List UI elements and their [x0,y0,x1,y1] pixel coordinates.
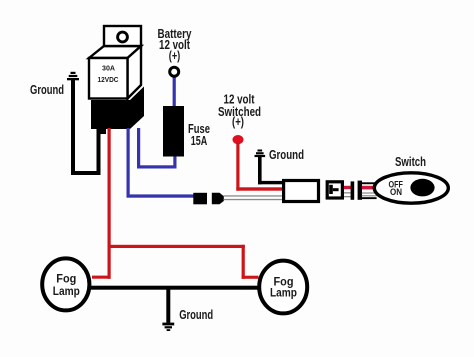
ground symbol (bottom) [162,323,174,331]
svg-text:Ground: Ground [179,308,213,322]
cable: thin wires to harness box [224,195,283,200]
wire: ground to harness (black) [258,157,283,185]
svg-text:(+): (+) [169,49,181,63]
svg-text:(+): (+) [232,115,244,129]
relay K1 base (socket) [91,87,144,130]
wire: battery to fuse (blue) [173,77,176,108]
svg-text:Ground: Ground [269,148,304,162]
svg-text:30A: 30A [102,64,116,73]
wire: relay to fuse (blue) [137,128,177,169]
connector A (spade housing) [327,182,342,198]
connector (blue) plug, inline pair [193,193,224,205]
label 12 volt Switched (+) [218,92,261,129]
switched 12V terminal (red dot) [233,135,244,144]
label Battery 12 volt (+) [158,27,192,63]
wire: relay coil to switch harness (blue) [127,128,194,198]
svg-text:ON: ON [390,187,402,197]
battery terminal circle [170,67,179,76]
svg-text:Lamp: Lamp [53,284,80,298]
label OFF / ON [388,179,403,197]
svg-text:15A: 15A [191,134,208,148]
ground symbol (left, chassis) [67,72,79,81]
svg-text:12VDC: 12VDC [98,75,119,84]
wire: red feed to fog lamps (branch) [92,245,259,279]
wire: relay to fog lamps (red) [108,128,111,279]
harness connector box [284,181,319,202]
relay K1 mounting tab [104,26,141,46]
svg-text:Ground: Ground [30,83,64,97]
switch S1 body [374,173,448,203]
fuse F1 [163,106,184,157]
connector B (switch plug) [358,181,377,200]
wire: bus to ground (black) [166,288,170,323]
label Fuse 15A [188,122,210,148]
wire: relay ground (black) down-left loop [71,80,106,175]
wire: switched 12V to harness (red) [236,142,282,191]
ground symbol (right) [255,150,266,158]
fog lamp right [259,261,307,314]
wire: ground bus between lamps (black) [90,286,259,290]
svg-text:Lamp: Lamp [270,286,297,300]
relay label 30A 12VDC [98,64,119,84]
connector A pigtail stripes [344,181,354,199]
relay K1 body [89,46,141,99]
svg-text:Switch: Switch [395,155,426,169]
fog lamp left [42,258,89,310]
switch button [410,179,434,197]
